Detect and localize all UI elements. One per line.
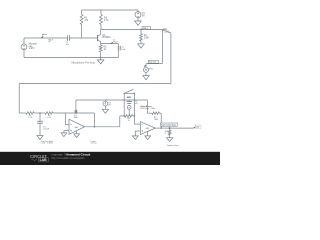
annotation box near out node xyxy=(142,27,151,30)
label R4 xyxy=(144,35,150,39)
wire left side down xyxy=(18,84,20,113)
capacitor C4 polarized xyxy=(126,100,132,104)
text low pass filter xyxy=(41,140,54,145)
junction at R4 tap xyxy=(140,29,142,31)
capacitor C1 xyxy=(67,35,97,40)
wire mic bottom rail xyxy=(24,56,118,58)
wire collector out rail xyxy=(101,29,164,31)
svg-text:1uF: 1uF xyxy=(135,103,139,105)
resistor R9 xyxy=(152,112,160,115)
node flag out2 xyxy=(194,125,201,129)
svg-text:1uF: 1uF xyxy=(66,44,70,46)
svg-text:470uF: 470uF xyxy=(113,41,119,43)
node flag out xyxy=(163,28,169,33)
switch SW1 xyxy=(124,89,136,100)
label R1 xyxy=(84,18,89,22)
svg-text:10uF: 10uF xyxy=(121,49,126,51)
ground at OA2 input xyxy=(132,136,138,140)
ground below R4 xyxy=(138,44,145,48)
svg-text:Microphone Pre-Amp: Microphone Pre-Amp xyxy=(71,61,95,64)
capacitor C2 xyxy=(118,46,120,51)
ground below bottom rail xyxy=(98,57,104,64)
svg-text:out2: out2 xyxy=(196,126,200,129)
transistor Q1 xyxy=(98,30,101,45)
label C3 xyxy=(43,126,50,130)
svg-text:VM1: VM1 xyxy=(149,68,153,70)
label V1 9V xyxy=(142,13,146,17)
label C4 xyxy=(135,101,139,105)
label VM1 xyxy=(149,68,153,70)
svg-text:1 kHz: 1 kHz xyxy=(29,48,36,50)
wire switch block sides xyxy=(124,100,134,116)
logo circuitlab xyxy=(30,154,48,162)
capacitor C3 xyxy=(37,113,43,136)
svg-text:OA1: OA1 xyxy=(74,126,78,129)
label SPK1 xyxy=(165,131,169,135)
svg-text:4.7k: 4.7k xyxy=(104,20,109,22)
label microphone xyxy=(29,43,38,51)
wire diagonal out xyxy=(162,30,171,33)
node flag at emitter wire xyxy=(111,40,119,44)
svg-text:9V: 9V xyxy=(108,105,111,107)
ground OA2 power xyxy=(145,131,151,139)
junction at R2 bottom xyxy=(100,57,102,59)
label R2 xyxy=(104,47,108,51)
wire emitter tap xyxy=(101,43,119,45)
ground at OA1 plus input xyxy=(61,133,67,137)
source V3 xyxy=(103,100,108,109)
label C1 xyxy=(66,42,70,46)
svg-text:http://circuitlab.com/c/pqt2fs: http://circuitlab.com/c/pqt2fs xyxy=(51,156,85,160)
svg-text:Control: Control xyxy=(91,142,97,145)
voltage source V1 xyxy=(135,10,141,21)
wire R8 segment xyxy=(120,116,124,127)
ground below VM1 xyxy=(143,76,149,80)
resistor R1 xyxy=(80,10,83,38)
resistor R7 xyxy=(75,100,78,113)
annotation box line out xyxy=(148,60,158,63)
svg-text:1k: 1k xyxy=(104,49,107,51)
junction OA1 out feedback xyxy=(94,126,96,128)
voltmeter VM1 xyxy=(144,67,149,75)
svg-text:4.7k: 4.7k xyxy=(28,117,32,119)
label R3 xyxy=(104,18,109,22)
node flag in xyxy=(41,34,46,38)
junction R7 node xyxy=(75,112,77,114)
ground below speaker xyxy=(167,138,173,142)
speaker SPK1 xyxy=(168,128,171,138)
junction C3 tap xyxy=(39,112,41,114)
wire out down to voltmeter branch xyxy=(161,30,163,64)
svg-text:OA2: OA2 xyxy=(145,127,149,130)
source G1 xyxy=(127,105,131,116)
junction R8 left xyxy=(123,115,125,117)
svg-text:Speaker Output: Speaker Output xyxy=(167,144,179,147)
wire R9 branch xyxy=(147,100,151,113)
text power control xyxy=(91,141,97,145)
ground below V1 xyxy=(135,21,142,25)
junction rail right xyxy=(134,99,136,101)
flag pointer to voltmeter wire xyxy=(144,65,146,67)
svg-text:nV: nV xyxy=(48,41,51,43)
text gain boost annotation xyxy=(140,105,155,110)
op-amp OA2 xyxy=(140,122,155,135)
resistor R5 xyxy=(26,112,34,115)
wire OA2 minus input xyxy=(135,131,140,136)
footer bar xyxy=(0,152,220,165)
wire OA2 top input xyxy=(134,116,140,124)
label R5 xyxy=(28,115,32,119)
wire lp rail c xyxy=(53,112,94,114)
junction feedback join xyxy=(160,127,162,129)
label Q1 2N3904 xyxy=(102,35,111,39)
label R7 xyxy=(73,115,77,119)
wire R9 to output xyxy=(159,113,161,128)
ground below V3 xyxy=(102,109,108,113)
wire supply rail bottom section xyxy=(76,99,147,101)
label R6 xyxy=(47,115,51,119)
junction rail left xyxy=(123,99,125,101)
svg-text:1k: 1k xyxy=(128,120,130,122)
svg-text:4.48 V: 4.48 V xyxy=(143,28,149,30)
svg-text:8: 8 xyxy=(165,133,166,135)
svg-text:SW1: SW1 xyxy=(127,97,132,99)
svg-text:in: in xyxy=(42,36,43,38)
resistor R3 xyxy=(100,10,103,30)
svg-text:cutoff ~ 1.6kHz: cutoff ~ 1.6kHz xyxy=(41,142,53,145)
wire out down right side xyxy=(170,33,172,84)
wire feedback down xyxy=(93,113,95,127)
wire R8 right xyxy=(133,115,135,117)
wire OA2 output xyxy=(155,127,169,129)
ground OA1 power xyxy=(74,131,80,138)
svg-text:9V: 9V xyxy=(142,16,145,18)
svg-text:100k: 100k xyxy=(73,117,77,119)
wire top supply rail xyxy=(82,9,138,11)
label R8 xyxy=(127,118,129,122)
svg-text:0.22uF: 0.22uF xyxy=(43,129,50,131)
wire to out2 flag xyxy=(170,127,194,129)
label R9 xyxy=(154,117,158,121)
wire C2 vertical xyxy=(117,44,119,58)
annotation box audio output xyxy=(160,123,177,127)
svg-text:4.7k: 4.7k xyxy=(47,117,51,119)
wire op-amp1 input stub xyxy=(65,113,69,125)
svg-text:47k: 47k xyxy=(84,20,89,22)
svg-text:LAB: LAB xyxy=(40,158,48,162)
wire loop to second stage xyxy=(19,83,171,85)
junction speaker node xyxy=(169,127,171,129)
wire lp rail a xyxy=(19,112,26,114)
svg-text:NPN Gain ~ 100x: NPN Gain ~ 100x xyxy=(140,108,155,110)
resistor R2 xyxy=(99,45,102,57)
label V3 xyxy=(108,103,111,107)
wire mic top xyxy=(24,37,67,39)
resistor R6 xyxy=(45,112,53,115)
wire voltmeter branch xyxy=(146,64,162,68)
ground below C3 xyxy=(37,136,43,140)
wire op-amp1 plus input to ground xyxy=(64,131,69,133)
svg-text:100k: 100k xyxy=(154,119,158,121)
wire OA1 output xyxy=(85,126,120,128)
svg-text:2N3904: 2N3904 xyxy=(102,37,111,39)
op-amp OA1 xyxy=(69,119,85,134)
resistor R8 xyxy=(125,115,133,118)
svg-text:Line Out: Line Out xyxy=(149,61,156,64)
svg-text:Audio Output Stage: Audio Output Stage xyxy=(161,124,176,127)
label C2 xyxy=(121,47,126,51)
label under input wire xyxy=(48,40,53,44)
svg-text:100k: 100k xyxy=(144,38,150,40)
junction R8 right xyxy=(134,115,136,117)
microphone source V2 xyxy=(21,38,27,57)
wire lp rail b xyxy=(34,112,45,114)
resistor R4 xyxy=(140,30,143,44)
